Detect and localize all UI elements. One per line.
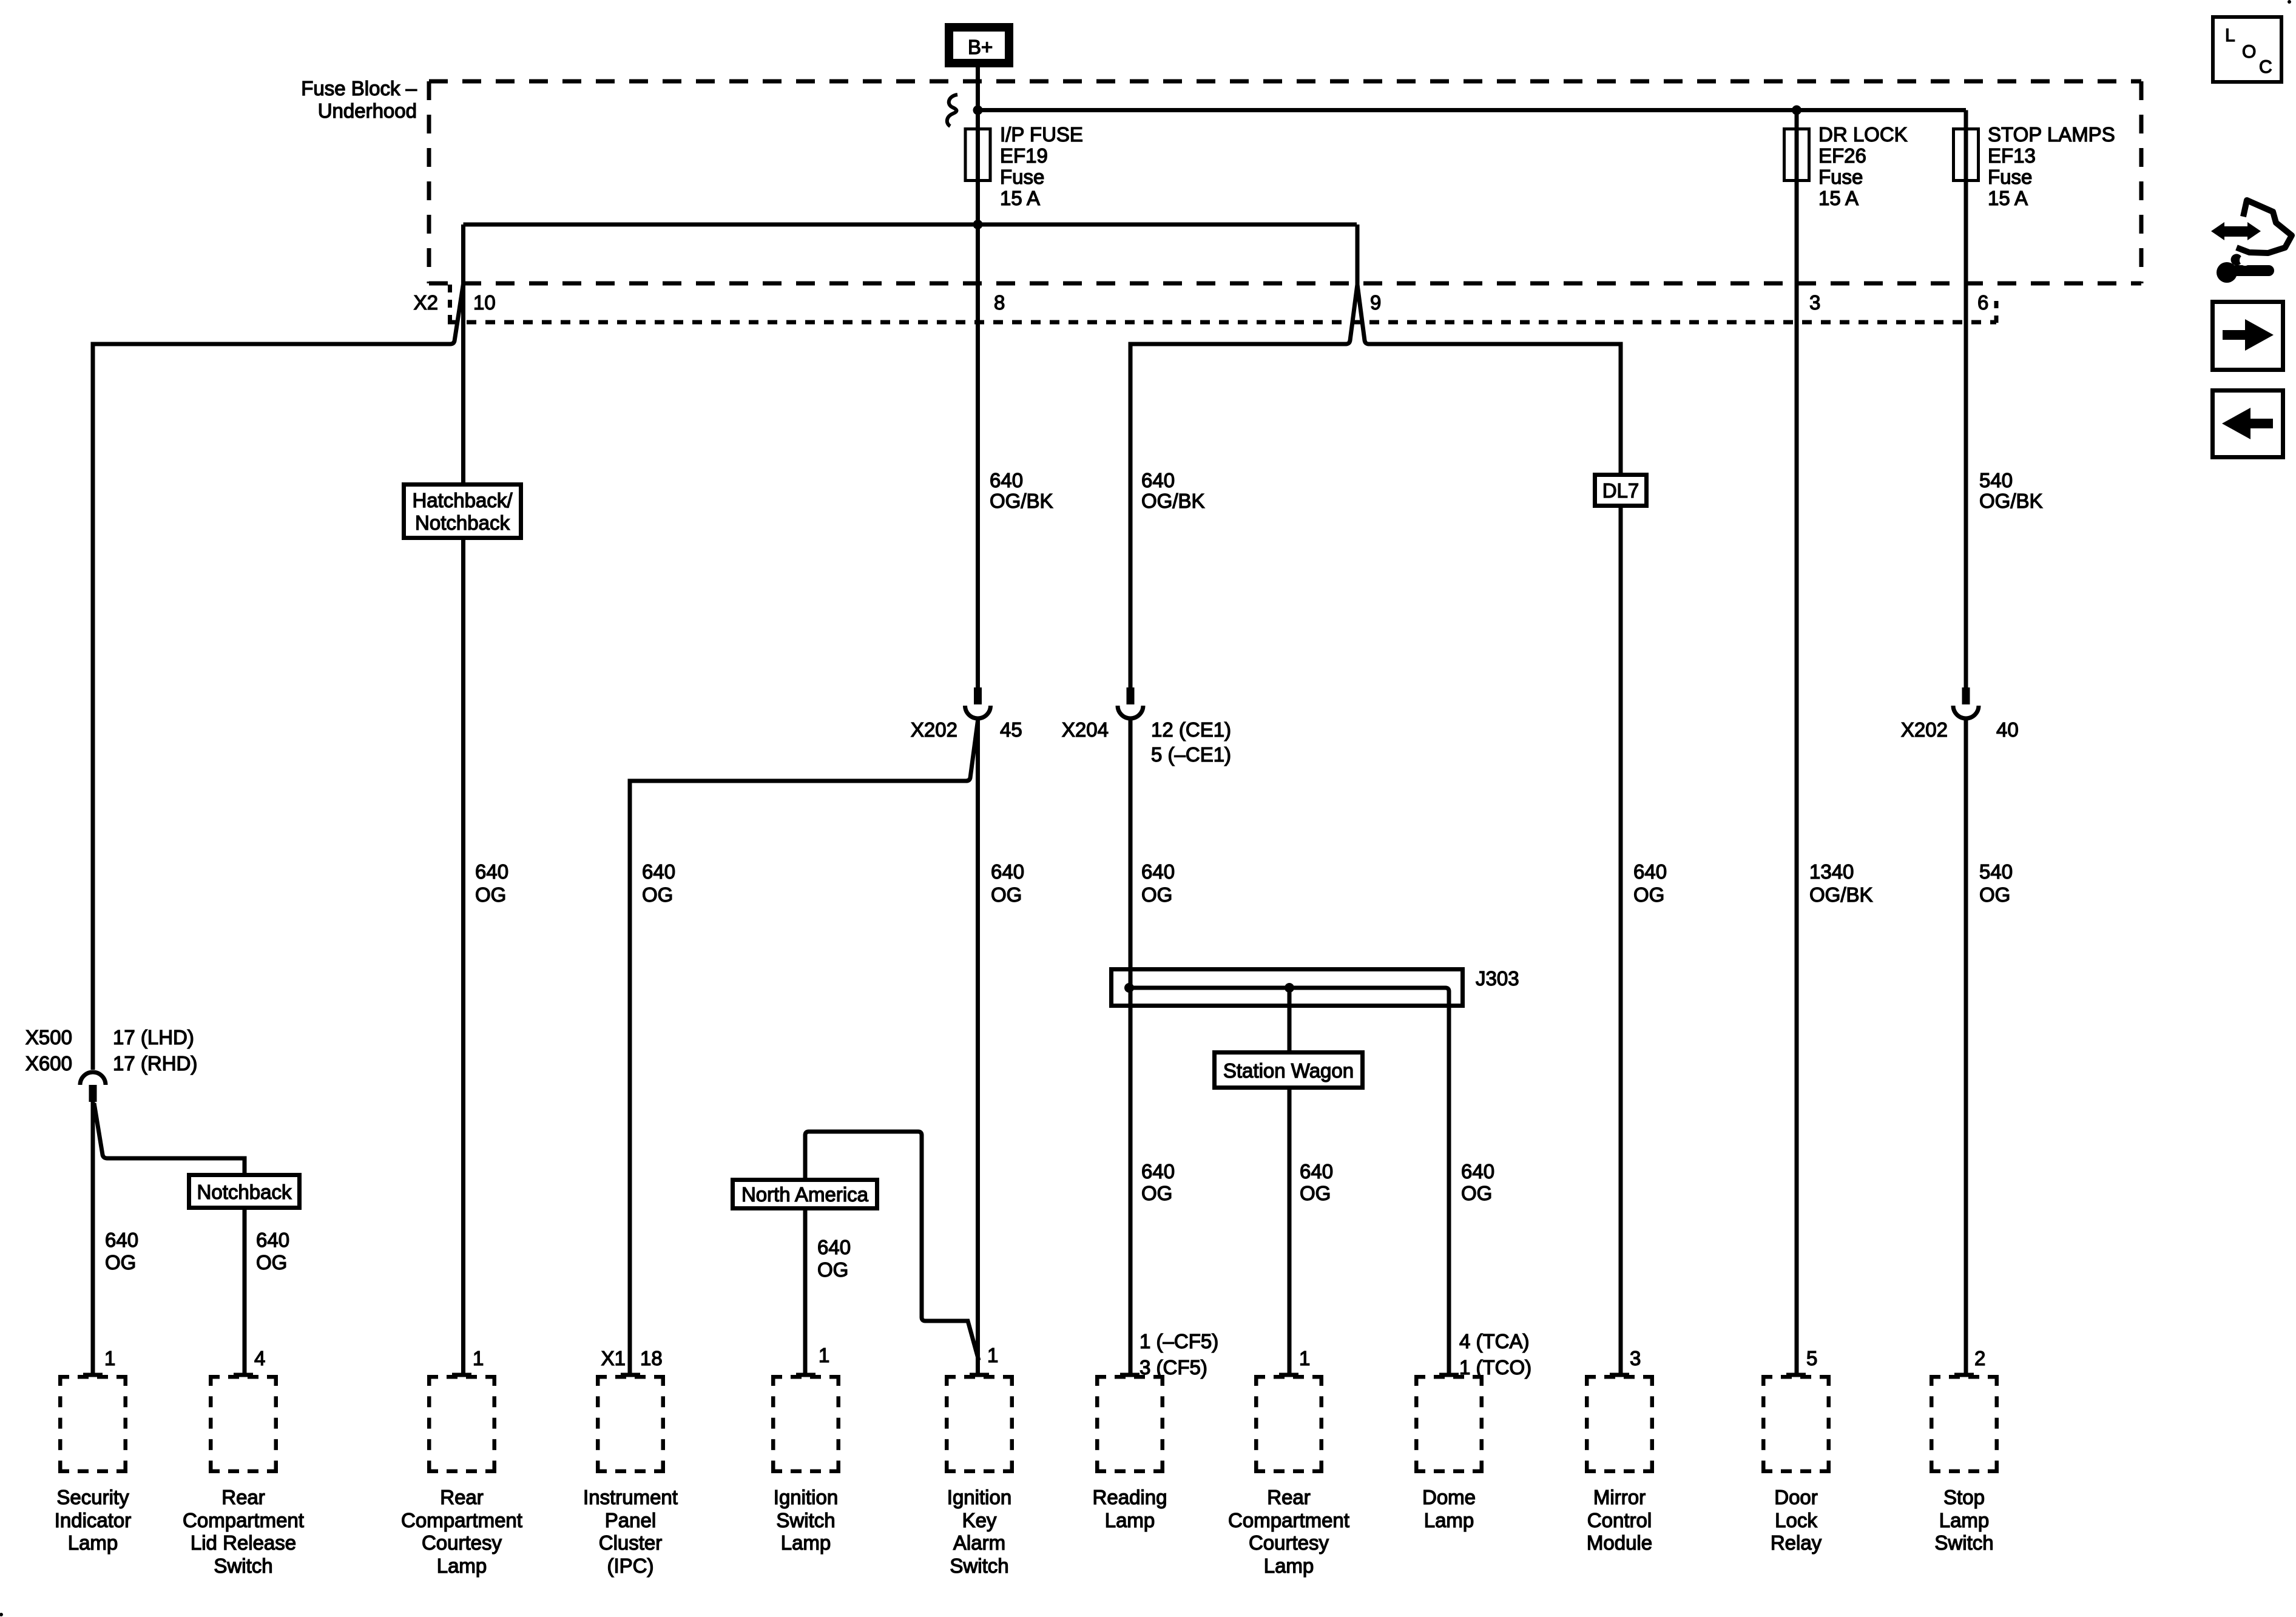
svg-text:1340: 1340	[1809, 860, 1854, 883]
svg-text:DR LOCK: DR LOCK	[1818, 123, 1908, 146]
svg-text:OG/BK: OG/BK	[1141, 490, 1205, 512]
svg-text:Reading: Reading	[1093, 1486, 1167, 1508]
svg-text:EF19: EF19	[1000, 144, 1048, 167]
svg-text:4: 4	[254, 1347, 265, 1369]
svg-text:J303: J303	[1476, 967, 1519, 990]
svg-text:17 (LHD): 17 (LHD)	[113, 1026, 194, 1048]
svg-text:OG: OG	[1141, 883, 1172, 906]
svg-text:OG: OG	[475, 883, 506, 906]
svg-text:Underhood: Underhood	[318, 100, 417, 122]
svg-text:1: 1	[104, 1347, 115, 1369]
svg-text:North America: North America	[741, 1183, 869, 1206]
svg-text:Indicator: Indicator	[55, 1509, 132, 1531]
svg-text:Lock: Lock	[1775, 1509, 1817, 1531]
svg-text:Key: Key	[962, 1509, 997, 1531]
svg-text:Lamp: Lamp	[68, 1531, 118, 1554]
svg-text:8: 8	[994, 291, 1005, 314]
svg-text:OG: OG	[105, 1251, 136, 1274]
svg-text:Panel: Panel	[605, 1509, 656, 1531]
svg-text:OG: OG	[1300, 1182, 1331, 1204]
svg-text:Mirror: Mirror	[1593, 1486, 1646, 1508]
svg-text:45: 45	[1000, 718, 1022, 741]
svg-text:Module: Module	[1587, 1531, 1652, 1554]
svg-text:Lamp: Lamp	[781, 1531, 831, 1554]
svg-text:640: 640	[817, 1236, 851, 1258]
svg-text:Lamp: Lamp	[1264, 1555, 1314, 1577]
svg-text:640: 640	[1141, 1160, 1175, 1183]
svg-text:1: 1	[819, 1344, 829, 1366]
svg-text:17 (RHD): 17 (RHD)	[113, 1052, 197, 1075]
svg-text:X2: X2	[414, 291, 438, 314]
svg-text:B+: B+	[968, 36, 993, 58]
svg-text:640: 640	[642, 860, 675, 883]
svg-text:Rear: Rear	[1267, 1486, 1311, 1508]
svg-text:Fuse: Fuse	[1818, 166, 1863, 188]
svg-text:EF26: EF26	[1818, 144, 1866, 167]
svg-text:540: 540	[1979, 469, 2013, 491]
svg-text:640: 640	[256, 1229, 289, 1251]
svg-text:Fuse: Fuse	[1000, 166, 1044, 188]
svg-text:1 (–CF5): 1 (–CF5)	[1140, 1330, 1218, 1352]
svg-text:Compartment: Compartment	[1228, 1509, 1349, 1531]
svg-text:10: 10	[473, 291, 496, 314]
svg-text:640: 640	[990, 469, 1023, 491]
svg-text:3: 3	[1630, 1347, 1641, 1369]
svg-text:4 (TCA): 4 (TCA)	[1459, 1330, 1530, 1352]
svg-text:15 A: 15 A	[1000, 187, 1040, 209]
svg-text:Fuse Block –: Fuse Block –	[301, 77, 417, 100]
svg-text:OG: OG	[256, 1251, 287, 1274]
svg-text:Compartment: Compartment	[183, 1509, 304, 1531]
svg-text:640: 640	[1300, 1160, 1333, 1183]
svg-text:640: 640	[991, 860, 1024, 883]
svg-text:1 (TCO): 1 (TCO)	[1459, 1356, 1531, 1379]
svg-text:Alarm: Alarm	[953, 1531, 1005, 1554]
svg-text:15 A: 15 A	[1988, 187, 2028, 209]
svg-text:Ignition: Ignition	[947, 1486, 1011, 1508]
svg-text:Switch: Switch	[950, 1555, 1008, 1577]
svg-text:X1: X1	[601, 1347, 626, 1369]
svg-text:3: 3	[1809, 291, 1820, 314]
svg-text:Lamp: Lamp	[1424, 1509, 1474, 1531]
svg-text:Rear: Rear	[440, 1486, 484, 1508]
svg-text:Courtesy: Courtesy	[422, 1531, 502, 1554]
svg-text:Switch: Switch	[214, 1555, 272, 1577]
svg-text:640: 640	[1141, 469, 1175, 491]
svg-text:OG/BK: OG/BK	[1809, 883, 1873, 906]
svg-text:DL7: DL7	[1602, 479, 1639, 502]
svg-text:Instrument: Instrument	[583, 1486, 678, 1508]
svg-text:Notchback: Notchback	[415, 511, 510, 534]
svg-text:Switch: Switch	[1934, 1531, 1993, 1554]
svg-text:15 A: 15 A	[1818, 187, 1859, 209]
svg-text:X204: X204	[1062, 718, 1109, 741]
svg-text:OG: OG	[1141, 1182, 1172, 1204]
svg-text:C: C	[2259, 57, 2272, 77]
svg-text:OG/BK: OG/BK	[990, 490, 1053, 512]
svg-text:Cluster: Cluster	[599, 1531, 663, 1554]
svg-text:Notchback: Notchback	[197, 1181, 292, 1203]
svg-text:Station Wagon: Station Wagon	[1223, 1059, 1354, 1082]
svg-text:(IPC): (IPC)	[607, 1555, 654, 1577]
svg-text:640: 640	[1461, 1160, 1494, 1183]
svg-text:640: 640	[1633, 860, 1667, 883]
svg-text:Lamp: Lamp	[437, 1555, 487, 1577]
svg-text:3 (CF5): 3 (CF5)	[1140, 1356, 1207, 1379]
svg-text:Lamp: Lamp	[1105, 1509, 1155, 1531]
svg-text:Stop: Stop	[1943, 1486, 1985, 1508]
svg-text:Control: Control	[1587, 1509, 1652, 1531]
svg-text:Courtesy: Courtesy	[1249, 1531, 1329, 1554]
svg-text:I/P FUSE: I/P FUSE	[1000, 123, 1083, 146]
svg-text:OG/BK: OG/BK	[1979, 490, 2043, 512]
svg-text:18: 18	[640, 1347, 663, 1369]
svg-text:1: 1	[473, 1347, 484, 1369]
svg-text:640: 640	[475, 860, 508, 883]
svg-text:X202: X202	[1901, 718, 1948, 741]
svg-text:L: L	[2225, 25, 2235, 46]
svg-text:640: 640	[1141, 860, 1175, 883]
svg-text:STOP LAMPS: STOP LAMPS	[1988, 123, 2115, 146]
svg-text:5 (–CE1): 5 (–CE1)	[1151, 743, 1231, 766]
svg-text:EF13: EF13	[1988, 144, 2036, 167]
svg-text:Lamp: Lamp	[1939, 1509, 1990, 1531]
svg-text:1: 1	[1299, 1347, 1310, 1369]
svg-text:12 (CE1): 12 (CE1)	[1151, 718, 1231, 741]
svg-text:Security: Security	[56, 1486, 129, 1508]
svg-text:OG: OG	[817, 1258, 848, 1281]
svg-text:2: 2	[1974, 1347, 1985, 1369]
svg-text:Fuse: Fuse	[1988, 166, 2032, 188]
svg-text:540: 540	[1979, 860, 2013, 883]
svg-text:Lid Release: Lid Release	[191, 1531, 296, 1554]
svg-text:O: O	[2242, 42, 2256, 62]
svg-text:OG: OG	[642, 883, 673, 906]
svg-text:6: 6	[1977, 291, 1988, 314]
svg-text:9: 9	[1370, 291, 1381, 314]
svg-text:5: 5	[1806, 1347, 1817, 1369]
svg-text:Relay: Relay	[1771, 1531, 1822, 1554]
svg-text:Ignition: Ignition	[774, 1486, 838, 1508]
svg-text:OG: OG	[1979, 883, 2010, 906]
svg-text:X500: X500	[25, 1026, 72, 1048]
svg-text:Hatchback/: Hatchback/	[412, 489, 513, 511]
svg-text:OG: OG	[991, 883, 1022, 906]
svg-text:Dome: Dome	[1422, 1486, 1476, 1508]
svg-text:Door: Door	[1774, 1486, 1818, 1508]
svg-text:X600: X600	[25, 1052, 72, 1075]
svg-text:Switch: Switch	[776, 1509, 835, 1531]
svg-text:OG: OG	[1633, 883, 1664, 906]
svg-text:Compartment: Compartment	[401, 1509, 522, 1531]
svg-text:40: 40	[1996, 718, 2019, 741]
svg-text:1: 1	[987, 1344, 998, 1366]
svg-text:OG: OG	[1461, 1182, 1492, 1204]
svg-text:Rear: Rear	[221, 1486, 265, 1508]
svg-text:X202: X202	[911, 718, 957, 741]
svg-text:640: 640	[105, 1229, 138, 1251]
